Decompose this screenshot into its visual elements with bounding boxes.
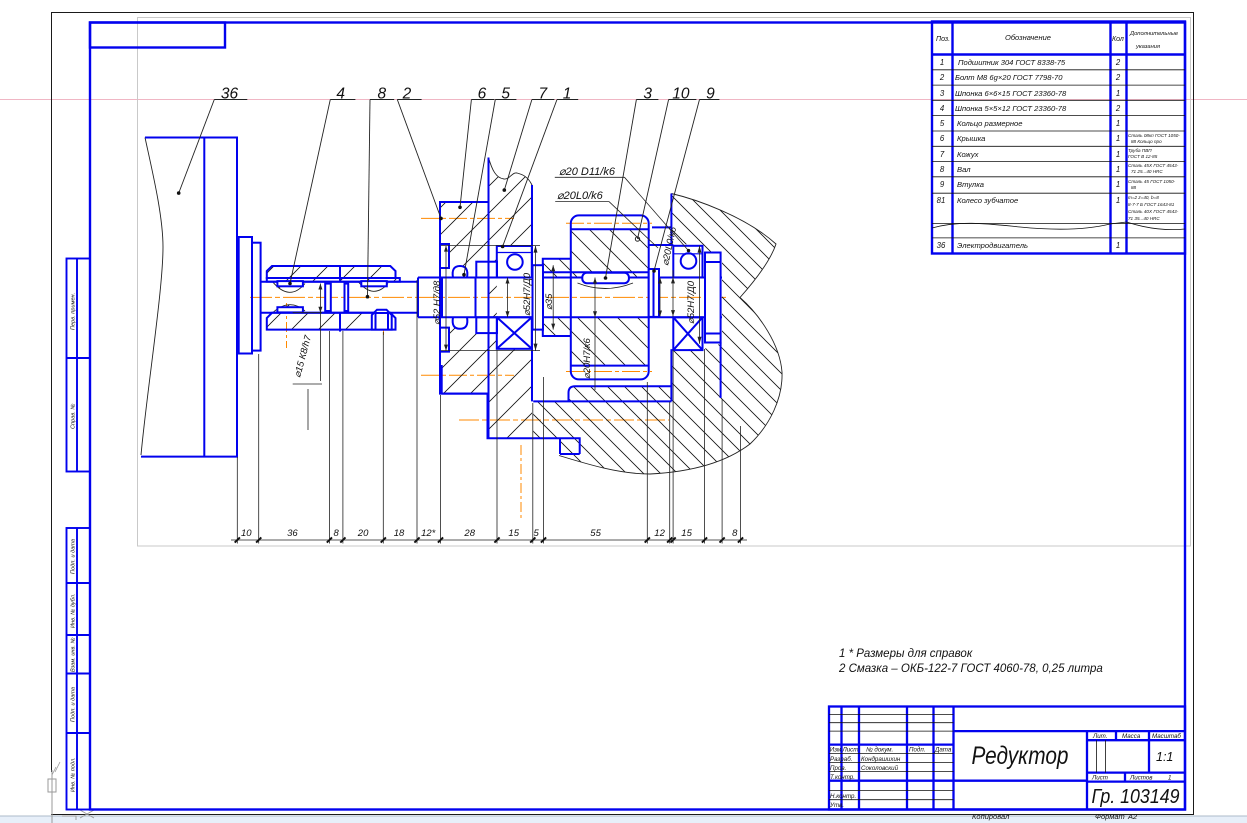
gear (item 81) xyxy=(571,215,649,379)
right housing break outline xyxy=(559,194,782,475)
svg-text:4: 4 xyxy=(940,104,945,113)
svg-text:⌀20 D11/k6: ⌀20 D11/k6 xyxy=(559,166,616,178)
svg-text:Сталь 08кп ГОСТ 1050-: Сталь 08кп ГОСТ 1050- xyxy=(1128,133,1180,138)
svg-text:Дополнительные: Дополнительные xyxy=(1129,31,1179,37)
TITLE BLOCK xyxy=(829,707,1185,822)
svg-text:71 25...40 HRC: 71 25...40 HRC xyxy=(1131,169,1163,174)
svg-text:Инв. № подл.: Инв. № подл. xyxy=(71,757,77,792)
svg-text:2: 2 xyxy=(1115,58,1121,67)
svg-text:2 Смазка – ОКБ-122-7 ГОСТ 406: 2 Смазка – ОКБ-122-7 ГОСТ 4060-78, 0,25 … xyxy=(838,663,1103,675)
svg-text:1: 1 xyxy=(1116,165,1120,174)
svg-text:Сталь 45 ГОСТ 1050-: Сталь 45 ГОСТ 1050- xyxy=(1128,179,1176,184)
coupling outline xyxy=(267,266,396,278)
svg-text:12: 12 xyxy=(654,528,665,539)
left housing cover flanges xyxy=(440,202,490,244)
sleeve item 9 xyxy=(649,269,659,317)
svg-text:Соколовский: Соколовский xyxy=(861,765,899,772)
svg-text:36: 36 xyxy=(937,241,946,250)
svg-text:Гр. 103149: Гр. 103149 xyxy=(1092,786,1180,808)
svg-text:Взам. инв. №: Взам. инв. № xyxy=(71,637,77,672)
svg-text:Т.контр.: Т.контр. xyxy=(830,774,855,781)
svg-text:Изм: Изм xyxy=(830,747,842,754)
svg-text:Обозначение: Обозначение xyxy=(1005,33,1051,42)
svg-text:№ докум.: № докум. xyxy=(866,747,893,754)
svg-text:Болт М8 6g×20 ГОСТ 7798-70: Болт М8 6g×20 ГОСТ 7798-70 xyxy=(955,73,1063,82)
svg-text:Копировал: Копировал xyxy=(972,812,1010,821)
svg-text:Кольцо размерное: Кольцо размерное xyxy=(957,119,1023,128)
BLUE GEOMETRY xyxy=(141,138,722,457)
svg-text:88: 88 xyxy=(1131,185,1137,190)
svg-text:Шпонка 5×5×12 ГОСТ 23360-78: Шпонка 5×5×12 ГОСТ 23360-78 xyxy=(955,104,1067,113)
svg-text:4: 4 xyxy=(336,85,345,102)
svg-text:2: 2 xyxy=(939,73,945,82)
svg-text:1: 1 xyxy=(1116,196,1120,205)
svg-text:⌀52Н7/Д0: ⌀52Н7/Д0 xyxy=(686,280,697,324)
svg-text:1: 1 xyxy=(563,85,572,102)
svg-text:Втулка: Втулка xyxy=(957,180,984,189)
svg-text:36: 36 xyxy=(221,85,239,102)
svg-text:36: 36 xyxy=(287,528,298,539)
orange centerlines xyxy=(250,218,726,520)
svg-text:5: 5 xyxy=(940,119,945,128)
svg-text:8: 8 xyxy=(378,85,387,102)
dim right bearing bore xyxy=(672,270,674,317)
svg-text:Поз.: Поз. xyxy=(936,36,950,43)
black break (wavy) curves xyxy=(141,138,782,475)
right bearing xyxy=(673,246,702,278)
left housing cover outline xyxy=(440,202,490,394)
right bearing cover xyxy=(705,253,721,343)
svg-text:Кожух: Кожух xyxy=(957,150,980,159)
svg-text:5: 5 xyxy=(533,528,539,539)
svg-text:Дата: Дата xyxy=(934,747,952,754)
svg-text:указания: указания xyxy=(1135,44,1160,50)
pink guide line xyxy=(0,99,1247,101)
svg-text:Формат: Формат xyxy=(1095,812,1125,821)
motor break line xyxy=(141,138,163,456)
svg-text:1: 1 xyxy=(1116,241,1120,250)
dim ⌀35 gear xyxy=(552,265,554,329)
shaft through bearing/gear xyxy=(418,278,722,318)
svg-text:Лист: Лист xyxy=(842,747,859,754)
svg-text:3: 3 xyxy=(940,89,945,98)
svg-text:⌀20Н7/к6: ⌀20Н7/к6 xyxy=(582,337,593,379)
svg-text:Крышка: Крышка xyxy=(957,134,985,143)
svg-text:1: 1 xyxy=(1168,775,1171,782)
coupling hub arcs hatch xyxy=(273,282,306,293)
svg-text:Пров.: Пров. xyxy=(830,765,846,772)
svg-text:1: 1 xyxy=(1116,119,1120,128)
svg-text:Кондрашихин: Кондрашихин xyxy=(861,756,901,763)
svg-text:8: 8 xyxy=(333,528,339,539)
svg-text:9: 9 xyxy=(706,85,715,102)
svg-text:1: 1 xyxy=(1116,134,1120,143)
housing bottom wall outline xyxy=(569,386,672,401)
hex bolt lower hub xyxy=(372,310,392,330)
svg-text:Н.контр.: Н.контр. xyxy=(830,793,856,800)
svg-text:6: 6 xyxy=(940,134,945,143)
dim ⌀20H7/k6 xyxy=(594,278,596,391)
gear upper / lower xyxy=(571,229,649,259)
bottom status strip xyxy=(0,817,1247,823)
motor 36 xyxy=(141,138,237,457)
housing inner wall right xyxy=(670,349,672,401)
bottom base xyxy=(442,394,580,454)
svg-text:10: 10 xyxy=(241,528,252,539)
svg-text:55: 55 xyxy=(590,528,601,539)
svg-text:Масса: Масса xyxy=(1122,733,1141,740)
rotated dim texts xyxy=(292,225,697,379)
svg-text:2: 2 xyxy=(1115,73,1121,82)
svg-text:7: 7 xyxy=(940,150,945,159)
hatched regions xyxy=(267,158,782,475)
svg-text:6: 6 xyxy=(478,85,487,102)
NOTES xyxy=(838,648,1103,675)
housing bottom wall under gear xyxy=(569,386,672,401)
svg-text:1:1: 1:1 xyxy=(1156,750,1173,764)
housing plate column xyxy=(489,158,533,247)
svg-text:Подп.: Подп. xyxy=(909,747,925,754)
svg-text:Инв. № дубл.: Инв. № дубл. xyxy=(71,594,77,628)
coupling top bar hatch xyxy=(267,266,396,278)
left bearing xyxy=(497,246,532,278)
svg-text:15: 15 xyxy=(508,528,519,539)
svg-text:Кол: Кол xyxy=(1112,36,1124,43)
svg-text:7: 7 xyxy=(539,85,549,102)
right housing lower wavy region xyxy=(533,298,782,475)
shaft shoulders xyxy=(475,278,477,318)
svg-text:Шпонка 6×6×15 ГОСТ 23360-78: Шпонка 6×6×15 ГОСТ 23360-78 xyxy=(955,89,1067,98)
svg-text:Масштаб: Масштаб xyxy=(1152,733,1181,740)
svg-text:Лит.: Лит. xyxy=(1092,733,1108,740)
svg-text:81: 81 xyxy=(937,196,946,205)
svg-text:18: 18 xyxy=(394,528,405,539)
gray view bounding box xyxy=(138,18,1191,547)
svg-text:Листов: Листов xyxy=(1129,775,1153,782)
svg-text:71 35...40 HRC: 71 35...40 HRC xyxy=(1128,216,1160,221)
svg-text:⌀20L0/k6: ⌀20L0/k6 xyxy=(557,190,604,202)
spacer rings xyxy=(325,284,331,311)
dim bearing OD right xyxy=(535,246,537,351)
svg-text:8: 8 xyxy=(940,165,945,174)
svg-text:Труба ПВП: Труба ПВП xyxy=(1128,148,1152,153)
svg-text:1: 1 xyxy=(940,58,944,67)
position labels with leaders xyxy=(179,100,720,297)
svg-text:Справ. №: Справ. № xyxy=(71,404,77,429)
svg-text:Редуктор: Редуктор xyxy=(972,742,1069,770)
svg-text:28: 28 xyxy=(463,528,475,539)
horizontal dim labels with leaders xyxy=(557,166,616,202)
svg-text:⌀52 Н7/д8: ⌀52 Н7/д8 xyxy=(432,280,443,325)
svg-text:Сталь 45Х ГОСТ 4543-: Сталь 45Х ГОСТ 4543- xyxy=(1128,163,1179,168)
flange xyxy=(239,237,252,354)
svg-text:1: 1 xyxy=(1116,89,1120,98)
svg-text:15: 15 xyxy=(681,528,692,539)
svg-text:1: 1 xyxy=(1116,150,1120,159)
svg-text:Подшипник 304 ГОСТ 8338-75: Подшипник 304 ГОСТ 8338-75 xyxy=(958,58,1066,67)
svg-text:1: 1 xyxy=(1116,180,1120,189)
svg-text:8: 8 xyxy=(732,528,738,539)
svg-text:⌀52Н7/Д0: ⌀52Н7/Д0 xyxy=(522,272,533,316)
svg-text:Перв. примен.: Перв. примен. xyxy=(71,293,77,330)
svg-text:88 Кольцо про: 88 Кольцо про xyxy=(1131,139,1162,144)
CAD handle marks bottom-left xyxy=(51,770,53,823)
svg-text:8-7-7 Б ГОСТ 1643-81: 8-7-7 Б ГОСТ 1643-81 xyxy=(1128,202,1175,207)
arrowheads xyxy=(444,246,448,351)
input shaft xyxy=(261,282,418,313)
svg-text:⌀35: ⌀35 xyxy=(544,293,555,310)
housing plate edges xyxy=(489,158,533,439)
SPEC TABLE (top right) xyxy=(932,22,1185,254)
svg-text:Электродвигатель: Электродвигатель xyxy=(957,241,1028,250)
svg-text:Колесо зубчатое: Колесо зубчатое xyxy=(957,196,1018,205)
svg-text:10: 10 xyxy=(672,85,690,102)
bottom dimension chain xyxy=(231,280,747,544)
svg-text:m=2 z=40, b=8: m=2 z=40, b=8 xyxy=(1128,195,1159,200)
svg-text:12*: 12* xyxy=(421,528,436,539)
coupling bottom bar hatch xyxy=(267,313,396,330)
housing plate top break xyxy=(489,158,533,186)
svg-text:Вал: Вал xyxy=(957,165,971,174)
svg-text:Разраб.: Разраб. xyxy=(830,756,852,763)
svg-text:Лист: Лист xyxy=(1091,775,1108,782)
coupling hub arcs xyxy=(273,282,306,293)
bearing race line xyxy=(497,252,532,254)
dim ⌀15 coupling xyxy=(319,284,321,382)
svg-text:20: 20 xyxy=(357,528,369,539)
svg-text:А2: А2 xyxy=(1127,812,1138,821)
svg-text:2: 2 xyxy=(1115,104,1121,113)
svg-text:Утв.: Утв. xyxy=(829,802,844,809)
svg-text:1 * Размеры для справок: 1 * Размеры для справок xyxy=(839,648,973,660)
svg-text:9: 9 xyxy=(940,180,945,189)
svg-text:Подп. и дата: Подп. и дата xyxy=(71,539,77,574)
svg-text:3: 3 xyxy=(643,85,652,102)
dim ⌀52 left: vertical line with arrows xyxy=(445,246,447,351)
right housing steps xyxy=(649,194,674,246)
LEFT MARGIN STAMPS xyxy=(67,259,91,810)
svg-text:2: 2 xyxy=(402,85,412,102)
seal omegas xyxy=(453,266,468,278)
right housing upper wavy region xyxy=(671,194,776,298)
svg-text:Сталь 40Х ГОСТ 4543-: Сталь 40Х ГОСТ 4543- xyxy=(1128,209,1179,214)
svg-text:ГОСТ В 12-85: ГОСТ В 12-85 xyxy=(1128,154,1158,159)
keyway arc under gear key xyxy=(578,283,634,289)
svg-text:Подп. и дата: Подп. и дата xyxy=(71,687,77,722)
svg-text:5: 5 xyxy=(501,85,510,102)
coupling hub dividers xyxy=(339,266,341,281)
ring/step item 5 xyxy=(476,262,497,278)
